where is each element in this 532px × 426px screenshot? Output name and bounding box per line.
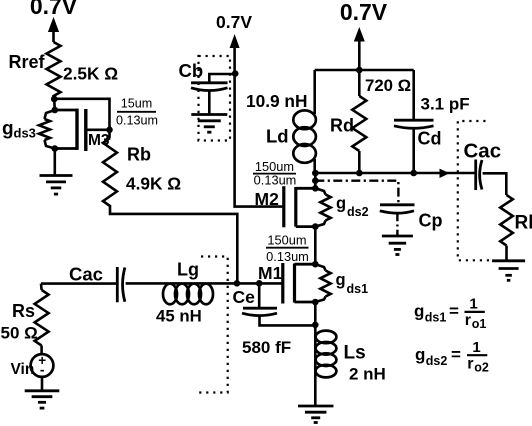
label Rd [330, 116, 354, 136]
wire Rs to Cac [41, 282, 117, 285]
capacitor Cac (input) [117, 267, 125, 302]
gds2 box top [296, 187, 316, 190]
svg-text:0.7V: 0.7V [216, 12, 252, 32]
node gds2 top [312, 185, 319, 192]
value 720 &#937; [365, 76, 411, 95]
supply 0.7V label (center) [216, 12, 252, 32]
node gds2 bottom [312, 223, 319, 230]
supply 0.7V label (left) [30, 0, 78, 19]
transistor M1 channel [293, 264, 296, 303]
label Ce [233, 287, 256, 307]
resistor Rs [35, 284, 49, 355]
svg-text:0.13um: 0.13um [116, 114, 158, 128]
transistor M3 channel + gds3 box [55, 109, 77, 150]
size label 15um/0.13um (M3) [116, 97, 158, 128]
svg-text:3.1 pF: 3.1 pF [421, 95, 470, 114]
label Vin [11, 361, 35, 378]
wire M2 drain [314, 173, 317, 190]
wire Cac to Rl [483, 173, 507, 195]
value 50 &#937; [1, 324, 38, 343]
svg-text:ds3: ds3 [14, 126, 36, 141]
svg-text:2 nH: 2 nH [349, 365, 386, 384]
inductor Lg [163, 284, 213, 305]
svg-text:1: 1 [472, 339, 480, 356]
svg-text:g: g [414, 302, 424, 321]
svg-text:15um: 15um [121, 97, 153, 111]
svg-text:Lg: Lg [177, 260, 199, 280]
svg-text:2.5K Ω: 2.5K Ω [63, 64, 118, 84]
capacitor Cd [394, 70, 434, 174]
supply 0.7V label (right) [340, 0, 388, 25]
svg-text:M2: M2 [255, 189, 280, 209]
value 2.5K &#937; [63, 64, 118, 84]
node drain rail [312, 170, 319, 177]
svg-text:o2: o2 [474, 360, 489, 374]
dotted box around Cb [199, 56, 231, 141]
label M3 [88, 132, 110, 149]
label g_ds1 [336, 271, 369, 296]
svg-text:Rd: Rd [330, 116, 354, 136]
svg-text:g: g [415, 345, 425, 364]
wire Cac to M1 gate [126, 282, 283, 285]
wire Cb tap [209, 74, 234, 82]
svg-text:Cac: Cac [69, 264, 103, 285]
value 2 nH [349, 365, 386, 384]
label M2 [255, 189, 280, 209]
node Cb junction [232, 70, 239, 77]
svg-text:=: = [451, 345, 461, 364]
size label 150um/0.13um (M1) [266, 233, 309, 265]
supply arrow (left) [48, 17, 59, 42]
svg-text:Ce: Ce [233, 287, 256, 307]
label Cac (output) [464, 140, 502, 163]
node top rail [356, 67, 363, 74]
ground (under Ls) [298, 406, 334, 423]
transistor M2 channel [294, 187, 297, 227]
svg-text:0.7V: 0.7V [340, 0, 388, 25]
svg-text:ds1: ds1 [347, 282, 369, 296]
node gds1 bottom [312, 299, 319, 306]
value 3.1 pF [421, 95, 470, 114]
svg-text:150um: 150um [267, 233, 306, 248]
label Ld [266, 126, 289, 147]
svg-text:Ls: Ls [344, 343, 366, 364]
svg-text:Cb: Cb [179, 60, 204, 81]
capacitor Cp [380, 205, 415, 235]
resistor g_ds3 [39, 110, 55, 149]
wire M2 source to M1 drain [314, 227, 317, 265]
resistor Rd [352, 70, 366, 174]
svg-text:Cp: Cp [419, 211, 443, 231]
svg-text:Cd: Cd [418, 129, 442, 149]
ground (under Cp) [382, 236, 413, 255]
source Vin [31, 353, 54, 390]
label Cd [418, 129, 442, 149]
size label 150um/0.13um (M2) [253, 159, 296, 188]
value 45 nH [156, 307, 202, 326]
svg-text:Rs: Rs [12, 301, 35, 321]
capacitor Cac (output) [476, 160, 482, 191]
inductor Ld [293, 70, 316, 174]
gds2 box bottom [296, 225, 316, 228]
ground (under M3) [40, 176, 73, 195]
resistor g_ds1 [315, 264, 330, 302]
output rail wire [315, 172, 476, 175]
wire node A to M3 drain [54, 99, 109, 131]
gds1 box bottom [295, 301, 316, 304]
svg-text:Rb: Rb [127, 145, 151, 165]
label Rb [127, 145, 151, 165]
resistor Rb [103, 130, 117, 206]
dotted box around input match [196, 257, 228, 393]
label g_ds3 [2, 119, 36, 141]
svg-text:ds1: ds1 [425, 311, 447, 325]
svg-text:ds2: ds2 [347, 205, 369, 219]
supply arrow (right) [354, 27, 365, 70]
svg-text:Ld: Ld [266, 126, 289, 147]
svg-text:50 Ω: 50 Ω [1, 324, 38, 343]
ground (under Rl) [492, 261, 525, 281]
resistor g_ds2 [315, 188, 330, 226]
svg-text:0.7V: 0.7V [30, 0, 78, 19]
node gds1 top [312, 261, 319, 268]
svg-text:Cac: Cac [464, 140, 502, 163]
svg-text:g: g [336, 271, 346, 289]
value 580 fF [242, 338, 291, 357]
ground (under Cb) [191, 115, 227, 133]
label Ls [344, 343, 366, 364]
svg-text:=: = [449, 302, 459, 321]
svg-text:g: g [2, 119, 14, 140]
svg-text:ds2: ds2 [426, 354, 448, 368]
wire Rb to input node [110, 205, 237, 283]
dotted box around output load [458, 121, 490, 260]
resistor Rref [47, 42, 61, 99]
svg-text:720 Ω: 720 Ω [365, 76, 411, 95]
resistor Rl [500, 195, 513, 261]
node Cd bottom [410, 170, 417, 177]
node input/Rb [234, 280, 241, 287]
node Rd bottom [356, 170, 363, 177]
svg-text:Rl: Rl [515, 213, 532, 234]
transistor M2 gate [282, 186, 285, 227]
top rail wire [315, 69, 414, 72]
node dash-dot tap [312, 177, 319, 184]
transistor M1 gate [281, 263, 284, 304]
svg-text:10.9 nH: 10.9 nH [246, 91, 307, 111]
capacitor Cb [191, 83, 228, 114]
capacitor Ce [242, 283, 315, 325]
output arrow [440, 169, 450, 178]
svg-text:Rref: Rref [9, 52, 46, 72]
node Ce junction [312, 322, 319, 329]
node M3 gate/drain/Rb [106, 127, 113, 134]
label 10.9 nH [246, 91, 307, 111]
ground (under Vin) [25, 391, 60, 408]
svg-text:-: - [40, 362, 45, 378]
svg-text:M1: M1 [258, 263, 283, 283]
svg-text:1: 1 [469, 296, 477, 313]
label g_ds2 [336, 195, 369, 220]
dash-dot wire to Cp [315, 181, 398, 204]
svg-text:r: r [465, 312, 471, 329]
label Cp [419, 211, 443, 231]
label Cb [179, 60, 204, 81]
svg-text:0.13um: 0.13um [254, 173, 297, 188]
label Rl [515, 213, 532, 234]
node input/Ce [256, 280, 263, 287]
gds1 box top [295, 263, 316, 266]
svg-text:Vin: Vin [11, 361, 35, 378]
supply arrow (center) / 0.7V line to M2 gate [230, 34, 283, 207]
node box top [52, 107, 59, 114]
node A (Rref bottom) [51, 96, 58, 110]
label Lg [177, 260, 199, 280]
svg-text:580 fF: 580 fF [242, 338, 291, 357]
value 4.9K &#937; [126, 174, 181, 194]
label M1 [258, 263, 283, 283]
equation g_ds1 = 1/r_o1 [414, 296, 486, 332]
label Rs [12, 301, 35, 321]
node box bottom [52, 145, 59, 175]
svg-text:o1: o1 [472, 317, 487, 331]
equation g_ds2 = 1/r_o2 [415, 339, 489, 375]
wire M1 source to Ls [314, 302, 317, 333]
svg-text:45 nH: 45 nH [156, 307, 202, 326]
inductor Ls [315, 331, 336, 406]
label Rref [9, 52, 46, 72]
label Cac (input) [69, 264, 103, 285]
svg-text:0.13um: 0.13um [266, 249, 309, 264]
transistor M3 gate [86, 109, 110, 151]
svg-text:g: g [336, 195, 346, 213]
svg-text:r: r [467, 355, 473, 372]
svg-text:4.9K Ω: 4.9K Ω [126, 174, 181, 194]
